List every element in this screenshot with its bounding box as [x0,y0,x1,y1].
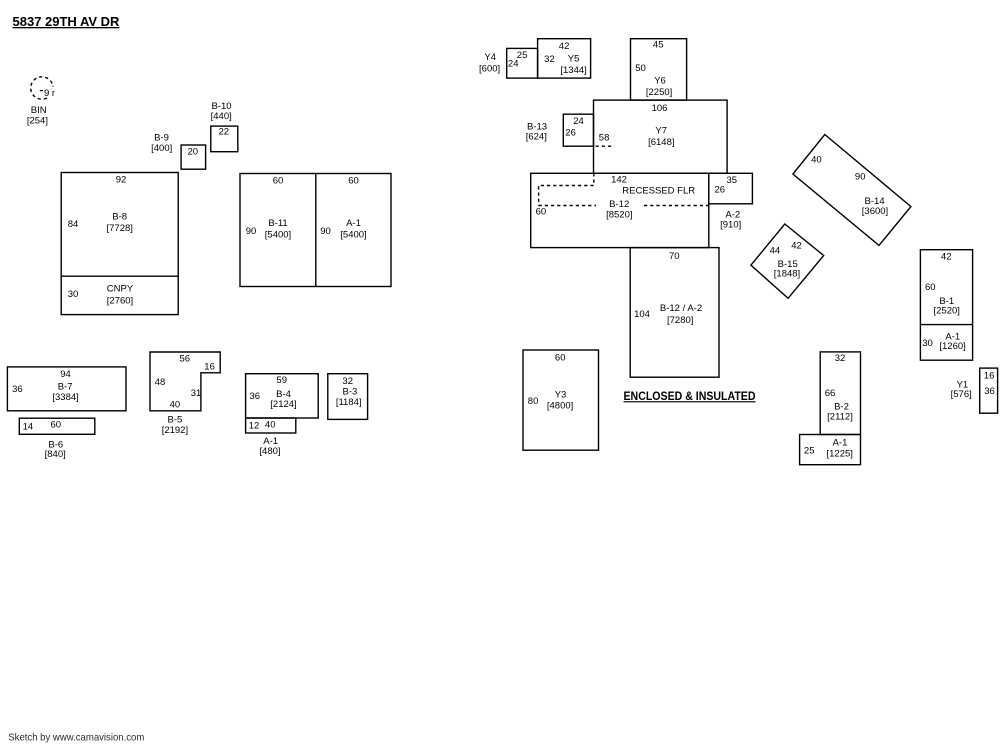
building B-12 RECESSED FLR [531,173,709,247]
svg-text:Y5: Y5 [568,54,580,65]
svg-text:45: 45 [653,40,664,51]
svg-text:B-8: B-8 [112,211,127,222]
svg-text:B-9: B-9 [154,132,169,143]
svg-text:142: 142 [611,175,627,186]
svg-text:36: 36 [12,384,23,395]
building Y1 [951,368,998,413]
svg-text:66: 66 [825,388,836,399]
svg-text:Y7: Y7 [655,126,667,137]
building B-10 [211,101,238,152]
building B-13 [526,114,610,146]
svg-text:40: 40 [811,155,822,166]
svg-text:40: 40 [170,399,181,410]
svg-text:42: 42 [791,241,802,252]
svg-text:36: 36 [250,391,261,402]
svg-text:5837 29TH AV DR: 5837 29TH AV DR [13,14,121,29]
building B-9 [151,132,205,169]
building B-5 L-shape [150,352,220,436]
building B-12 / A-2 lower [630,248,719,378]
svg-text:[1848]: [1848] [774,269,800,280]
svg-text:[2192]: [2192] [162,425,188,436]
svg-text:[1260]: [1260] [939,341,965,352]
svg-text:60: 60 [925,282,936,293]
svg-text:58: 58 [599,133,610,144]
svg-text:B-12 / A-2: B-12 / A-2 [660,303,702,314]
building B-2 [820,352,860,435]
svg-text:[910]: [910] [720,220,741,231]
svg-text:Y6: Y6 [654,76,666,87]
label BIN [254] [27,105,48,127]
svg-text:B-12: B-12 [609,199,629,210]
svg-text:92: 92 [116,174,127,185]
svg-text:90: 90 [855,172,866,183]
svg-text:[600]: [600] [479,64,500,75]
svg-text:30: 30 [68,289,79,300]
building B-14 rotated [793,135,911,246]
svg-text:42: 42 [941,251,952,262]
svg-text:32: 32 [544,54,555,65]
svg-text:24: 24 [508,59,519,70]
svg-text:60: 60 [555,353,566,364]
building B-7 [7,367,126,411]
svg-text:36: 36 [984,386,995,397]
building Y5 [538,39,591,78]
svg-text:ENCLOSED & INSULATED: ENCLOSED & INSULATED [624,391,756,403]
svg-text:RECESSED FLR: RECESSED FLR [622,186,695,197]
svg-text:[440]: [440] [211,111,232,122]
svg-text:[1344]: [1344] [560,65,586,76]
svg-text:[6148]: [6148] [648,137,674,148]
building Y6 [631,39,687,100]
svg-text:Sketch by www.camavision.com: Sketch by www.camavision.com [8,732,144,744]
footer credit [8,732,144,744]
svg-text:32: 32 [342,376,353,387]
svg-text:90: 90 [246,226,257,237]
building B-11 / A-1 pair [240,174,391,287]
building Y3 [523,350,599,450]
svg-text:B-3: B-3 [343,386,358,397]
svg-text:16: 16 [204,361,215,372]
svg-text:[7728]: [7728] [106,223,132,234]
building A-1 under B-4 [246,418,296,457]
svg-text:[2112]: [2112] [827,412,853,423]
svg-text:[1225]: [1225] [826,448,852,459]
building B-1 / A-1 column [920,250,972,361]
svg-text:Y3: Y3 [555,389,567,400]
svg-text:104: 104 [634,309,650,320]
svg-text:[5400]: [5400] [340,229,366,240]
svg-text:[3600]: [3600] [862,206,888,217]
svg-text:26: 26 [565,128,576,139]
building A-1 under B-2 [800,435,861,465]
svg-text:[2124]: [2124] [270,399,296,410]
svg-text:B-5: B-5 [168,414,183,425]
svg-text:[1184]: [1184] [336,397,362,408]
svg-text:A-1: A-1 [833,437,848,448]
building A-2 [709,173,753,230]
svg-text:60: 60 [51,419,62,430]
svg-text:70: 70 [669,251,680,262]
svg-text:[7280]: [7280] [667,315,693,326]
svg-text:BIN: BIN [31,105,47,116]
dashed tick near 58 [596,145,614,147]
svg-text:[624]: [624] [526,132,547,143]
svg-text:Y4: Y4 [484,52,496,63]
svg-text:106: 106 [652,103,668,114]
svg-text:[4800]: [4800] [547,401,573,412]
building B-15 rotated [751,224,824,298]
svg-text:94: 94 [60,369,71,380]
svg-text:60: 60 [273,175,284,186]
svg-text:22: 22 [219,127,230,138]
svg-text:[840]: [840] [45,449,66,460]
svg-text:14: 14 [23,422,34,433]
svg-text:[5400]: [5400] [265,229,291,240]
svg-text:B-7: B-7 [58,381,73,392]
svg-text:32: 32 [835,353,846,364]
svg-text:CNPY: CNPY [107,283,134,294]
bin circle [31,77,55,99]
svg-text:[400]: [400] [151,143,172,154]
building B-4 [246,374,319,418]
svg-text:[2760]: [2760] [107,295,133,306]
building B-8 with CNPY [61,173,178,315]
svg-text:12: 12 [249,421,260,432]
svg-text:[480]: [480] [259,446,280,457]
building Y4 [479,48,538,78]
svg-text:[8520]: [8520] [606,209,632,220]
svg-text:80: 80 [528,396,539,407]
enclosed insulated note [624,391,756,403]
svg-text:60: 60 [536,207,547,218]
svg-text:60: 60 [348,175,359,186]
svg-text:25: 25 [804,446,815,457]
building B-6 [19,418,95,460]
svg-text:44: 44 [770,245,781,256]
svg-text:40: 40 [265,420,276,431]
svg-text:A-1: A-1 [346,218,361,229]
svg-text:24: 24 [573,116,584,127]
svg-text:[2520]: [2520] [933,305,959,316]
svg-text:20: 20 [188,147,199,158]
svg-text:26: 26 [715,185,726,196]
svg-text:[2250]: [2250] [646,87,672,98]
svg-text:84: 84 [68,219,79,230]
svg-text:90: 90 [320,226,331,237]
svg-text:[254]: [254] [27,116,48,127]
svg-text:16: 16 [984,371,995,382]
svg-text:42: 42 [559,41,570,52]
svg-text:48: 48 [155,377,166,388]
title 5837 29TH AV DR [13,14,121,29]
svg-text:31: 31 [191,388,202,399]
svg-text:B-11: B-11 [268,218,287,229]
svg-text:35: 35 [727,175,738,186]
building B-3 [328,374,368,420]
svg-text:56: 56 [180,354,191,365]
svg-text:50: 50 [635,63,646,74]
svg-text:[576]: [576] [951,389,972,400]
svg-text:59: 59 [276,375,287,386]
svg-text:[3384]: [3384] [52,392,78,403]
svg-text:30: 30 [922,338,933,349]
svg-text:9 r: 9 r [44,88,55,99]
building Y7 [594,100,728,173]
